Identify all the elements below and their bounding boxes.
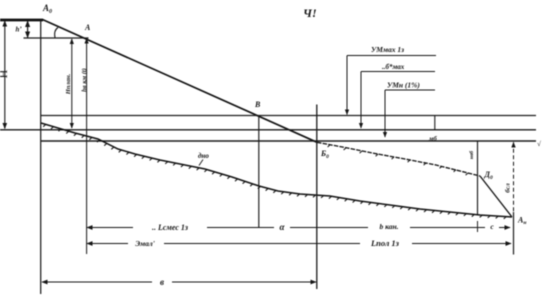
label UMmax with leader (347, 45, 436, 115)
An vertical (513, 212, 515, 255)
svg-text:в: в (160, 277, 164, 287)
h6 dimension (16, 21, 28, 38)
B vertical (258, 116, 260, 228)
svg-text:Нплан.: Нплан. (65, 73, 72, 95)
svg-text:hв км (t): hв км (t) (81, 68, 88, 92)
tick 477 row1 (477, 221, 479, 232)
bed hatch ticks (43, 124, 506, 219)
dim row1 (87, 220, 510, 232)
svg-text:√: √ (537, 140, 541, 148)
lower level line (41, 140, 536, 142)
svg-text:УМмах 1з: УМмах 1з (371, 45, 404, 54)
svg-text:бсл: бсл (505, 183, 512, 193)
main vertical axis (40, 20, 42, 294)
rough line B0-D0 (317, 142, 480, 176)
svg-text:А: А (84, 23, 91, 32)
label dno with leader (198, 152, 209, 166)
svg-text:Lпол 1з: Lпол 1з (370, 238, 400, 248)
label UMn(1%) with leader (385, 81, 435, 138)
svg-text:..б*мах: ..б*мах (382, 63, 405, 71)
ticks under B0-D0 line (328, 145, 468, 175)
dim row3 B (42, 275, 316, 287)
svg-text:h’: h’ (16, 26, 23, 34)
datum line (0, 129, 536, 131)
H dimension (0, 21, 10, 129)
bed line (dno) (41, 123, 512, 217)
label VB*max with leader (361, 63, 435, 128)
crest line (0, 19, 43, 22)
dashed vertical hsl (505, 142, 514, 212)
svg-text:мб: мб (428, 136, 437, 143)
svg-text:b кан.: b кан. (379, 222, 398, 231)
angle arc phi (55, 28, 58, 38)
svg-text:.. Lсмес 1з: .. Lсмес 1з (152, 223, 188, 232)
long vertical at 317 (316, 105, 318, 290)
svg-text:Ч!: Ч! (303, 6, 317, 20)
svg-text:В: В (254, 100, 261, 109)
upper slope A0-B0 (43, 20, 318, 143)
svg-text:Д0: Д0 (484, 170, 493, 181)
svg-text:нвб: нвб (468, 151, 475, 159)
svg-text:Н: Н (0, 69, 10, 78)
vertical 477 (477, 141, 479, 214)
svg-text:дно: дно (198, 152, 209, 160)
dim row2 (87, 236, 511, 248)
tick x435 between levels (434, 116, 436, 131)
svg-text:УМн (1%): УМн (1%) (387, 81, 420, 90)
svg-text:Эмал': Эмал' (135, 239, 155, 248)
water level line UMmax (41, 115, 536, 117)
Nplan dimension (65, 39, 72, 128)
svg-text:Ан: Ан (517, 216, 526, 227)
svg-text:Б0: Б0 (320, 149, 329, 160)
h long dimension (81, 39, 88, 255)
svg-text:А0: А0 (42, 3, 52, 15)
berm line (24, 37, 89, 39)
drop line D0-An (480, 176, 512, 217)
